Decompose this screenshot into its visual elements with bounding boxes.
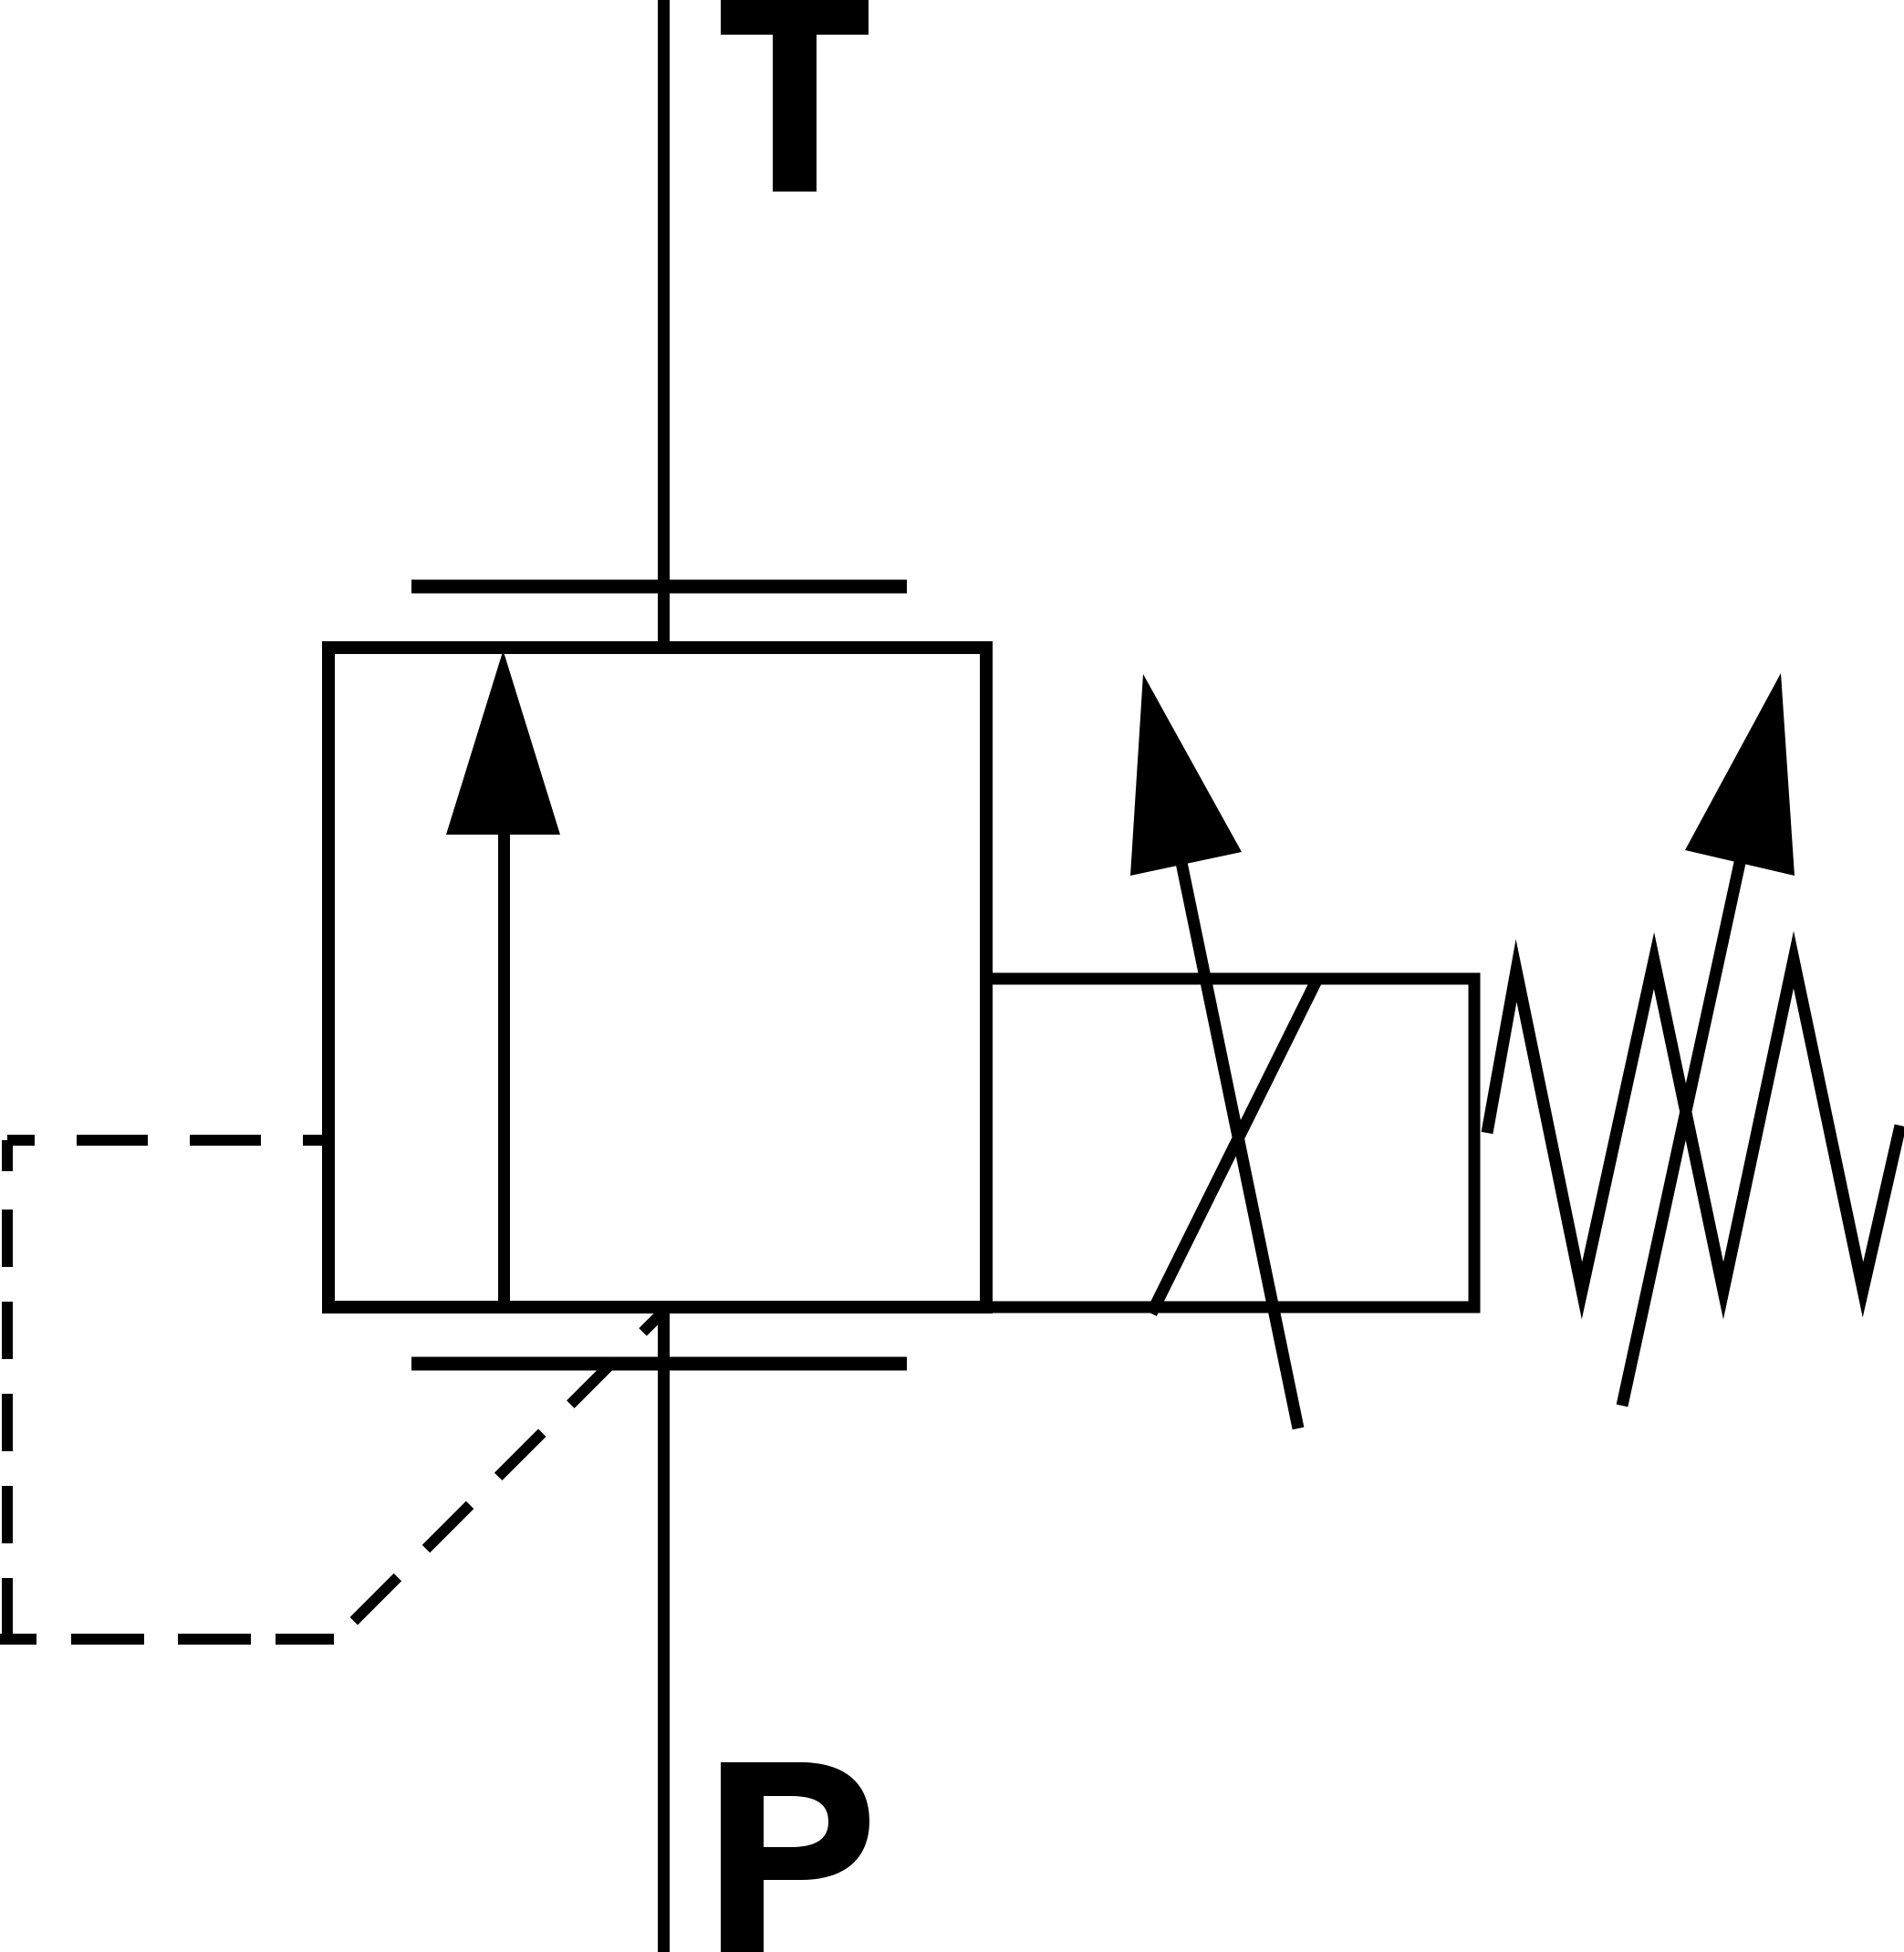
solenoid diagonal stroke xyxy=(1151,979,1317,1313)
solenoid box (proportional pilot stage) xyxy=(986,979,1474,1307)
pilot line (dashed) left vertical segment xyxy=(2,1140,13,1639)
pilot line (dashed) top segment xyxy=(7,1135,328,1146)
spring adjustment arrowhead xyxy=(1685,673,1795,876)
proportional-solenoid adjustment arrow stem xyxy=(1167,792,1298,1428)
flow-path arrow stem (inside valve body) xyxy=(498,828,510,1303)
port tick line P (lower envelope port line) xyxy=(411,1357,907,1371)
valve body envelope (main square) xyxy=(328,648,986,1307)
wire: pressure line P (vertical, bottom) xyxy=(658,1305,670,1952)
adjustable spring (zigzag) xyxy=(1487,960,1900,1291)
spring adjustment arrow stem xyxy=(1622,774,1759,1406)
proportional-solenoid adjustment arrowhead xyxy=(1130,674,1242,876)
flow-path arrowhead (inside valve body) xyxy=(446,650,560,835)
pilot line (dashed) diagonal segment to P line xyxy=(336,1312,663,1639)
port label T xyxy=(721,0,869,192)
wire: tank line T (vertical, top) xyxy=(658,0,670,649)
pilot line (dashed) bottom segment xyxy=(0,1634,336,1645)
port tick line T (upper envelope port line) xyxy=(411,580,907,594)
port label P xyxy=(721,1762,869,1952)
